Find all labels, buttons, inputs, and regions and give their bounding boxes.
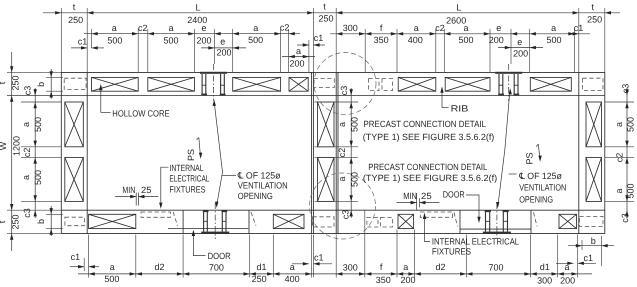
svg-text:L: L [195, 3, 200, 13]
extension line x=91.5 [91, 29, 93, 48]
svg-text:700: 700 [488, 262, 503, 272]
door jamb line right panel, left [459, 210, 461, 233]
svg-text:500: 500 [107, 36, 122, 46]
dim c1 bottom mid [292, 263, 309, 265]
extension line x=88.6 [88, 235, 90, 278]
svg-text:d1: d1 [540, 262, 550, 272]
svg-text:c1: c1 [584, 253, 594, 263]
connection crossbar left [202, 84, 206, 86]
svg-text:MIN: MIN [403, 191, 417, 201]
centerline of opening [496, 203, 498, 239]
svg-text:DOOR: DOOR [443, 189, 465, 199]
jamb foot left [485, 210, 491, 212]
jamb crossbar left [204, 220, 208, 222]
dim row 2 right panel [330, 33, 590, 35]
extension line x=61.3 [60, 8, 62, 72]
door reveal dashed right panel, right [534, 212, 538, 226]
svg-text:200: 200 [489, 35, 504, 45]
svg-text:PRECAST CONNECTION DETAIL: PRECAST CONNECTION DETAIL [364, 119, 487, 129]
extension line x=557.7 [557, 235, 559, 278]
svg-text:300: 300 [343, 262, 358, 272]
hidden core top-right corner [583, 78, 603, 90]
extension line x=529.7 [529, 29, 531, 72]
svg-text:c2: c2 [337, 148, 347, 158]
svg-text:500: 500 [104, 274, 119, 284]
dim c1 bottom-left [70, 266, 84, 268]
extension line y=157.4 central [315, 156, 359, 158]
svg-text:a: a [112, 23, 117, 33]
extension line x=578.8 [578, 8, 580, 72]
svg-text:℄ OF 125ø: ℄ OF 125ø [518, 171, 562, 181]
connection bar [202, 74, 203, 96]
extension line x=397 [396, 230, 398, 278]
detail circle B (bottom joint) [310, 173, 376, 239]
svg-text:c3: c3 [620, 213, 630, 223]
svg-text:PS: PS [186, 149, 196, 161]
svg-text:500: 500 [546, 35, 561, 45]
extension line x=311.6 [311, 235, 313, 278]
W/t dimension line [11, 52, 13, 251]
svg-text:200: 200 [400, 275, 415, 285]
svg-text:e: e [496, 23, 501, 33]
hidden core bottom f-region b [381, 217, 393, 227]
svg-text:a: a [253, 23, 258, 33]
svg-text:a: a [614, 122, 624, 127]
hollow core box T5 [398, 77, 436, 91]
svg-text:200: 200 [196, 36, 211, 46]
svg-text:c3: c3 [23, 86, 33, 96]
row1 arrowheads [55, 11, 61, 14]
svg-text:250: 250 [11, 75, 21, 90]
svg-text:250: 250 [587, 14, 602, 24]
connection foot left [201, 94, 207, 96]
connection foot left [498, 94, 504, 96]
extension line x=336.2 [335, 8, 337, 72]
extension line x=601.5 (b) [601, 236, 603, 266]
extension line x=135.8 [135, 235, 137, 278]
svg-text:400: 400 [408, 35, 423, 45]
svg-text:a: a [414, 23, 419, 33]
extension line x=313.4 [312, 235, 314, 278]
extension line x=147.8 [147, 29, 149, 72]
svg-text:200: 200 [560, 275, 575, 285]
right core chain dim line [626, 88, 628, 218]
extension line y=102.0 central [315, 101, 359, 103]
wire: central joint line 3 [335, 72, 337, 233]
connection foot right [220, 94, 226, 96]
leader internal electrical fixtures right [425, 216, 431, 241]
svg-text:a: a [21, 175, 31, 180]
hollow core box left wall lower [65, 157, 84, 201]
svg-text:VENTILATION: VENTILATION [238, 181, 288, 191]
svg-text:a: a [337, 122, 347, 127]
svg-text:c3: c3 [22, 208, 32, 218]
extension line x=365.2 [364, 29, 366, 72]
svg-text:250: 250 [318, 14, 333, 24]
extension line x=530.6 [530, 235, 532, 278]
extension line x=183.1 [182, 235, 184, 278]
dim row3: second e/200 [201, 47, 246, 49]
extension line x=84.2 (c1) [83, 258, 85, 271]
leader HOLLOW CORE [100, 87, 102, 113]
jamb bar [503, 210, 504, 231]
svg-text:200: 200 [289, 58, 304, 68]
svg-text:500: 500 [33, 117, 43, 132]
extension line y=146.8 [21, 146, 61, 148]
hollow core box T1 [92, 77, 139, 91]
leader DOOR right [466, 195, 479, 220]
hollow core box T7 [530, 77, 571, 91]
extension line y=157.4 [21, 156, 61, 158]
svg-text:b: b [591, 236, 596, 246]
door reveal dashed left panel, right [251, 212, 256, 226]
svg-text:W: W [0, 141, 8, 150]
hollow core box B3 [398, 214, 414, 228]
extension line x=604.8 [604, 8, 606, 72]
svg-text:500: 500 [626, 183, 636, 198]
svg-text:c1: c1 [314, 33, 324, 43]
svg-text:a: a [614, 188, 624, 193]
svg-text:25: 25 [141, 185, 152, 195]
svg-text:700: 700 [209, 262, 224, 272]
dim row3 right: second e/200 [498, 47, 543, 49]
svg-text:MIN: MIN [122, 185, 135, 195]
svg-text:(TYPE 1) SEE FIGURE 3.5.6.2(f): (TYPE 1) SEE FIGURE 3.5.6.2(f) [363, 173, 497, 183]
svg-text:500: 500 [350, 117, 360, 132]
svg-text:a: a [21, 122, 31, 127]
leader DOOR left [193, 234, 205, 256]
extension line y=157.4 right [605, 156, 634, 158]
connection bar [205, 74, 206, 96]
jamb bar [203, 210, 204, 231]
wire: central joint line 4 [337, 72, 339, 233]
leader internal electrical fixtures left [161, 167, 169, 205]
jamb crossbar right [223, 220, 227, 222]
svg-text:c1: c1 [314, 253, 324, 263]
hidden core bottom-central joint [313, 217, 334, 227]
svg-text:300: 300 [537, 275, 552, 285]
hollow core box T2 [148, 77, 195, 91]
extension line x=511 [510, 29, 512, 64]
jamb bar [225, 210, 226, 231]
hollow core box left wall upper [65, 102, 84, 147]
svg-text:500: 500 [626, 117, 636, 132]
PS arrow left [199, 138, 201, 156]
hollow core box T3 [233, 77, 281, 91]
svg-text:INTERNAL: INTERNAL [169, 163, 203, 173]
hollow core box B1 [89, 214, 136, 228]
extension line x=194.4 [193, 29, 195, 72]
svg-text:a: a [403, 262, 408, 272]
extension line x=280.6 [280, 29, 282, 72]
min25 ticks right [416, 193, 418, 210]
wire: left wall inner face [86, 72, 88, 233]
wire: top wall inner face [61, 95, 605, 97]
extension line y=201.4 [21, 200, 61, 202]
door sill left panel [168, 228, 248, 230]
hidden core bottom-left corner [65, 217, 85, 226]
svg-text:(TYPE 1) SEE FIGURE 3.5.6.2(f): (TYPE 1) SEE FIGURE 3.5.6.2(f) [363, 132, 495, 142]
connection bar [517, 74, 518, 96]
extension line y=102.0 right [605, 101, 634, 103]
central core chain dim line [350, 88, 352, 218]
svg-text:250: 250 [11, 214, 21, 229]
svg-text:a: a [551, 23, 556, 33]
dim c1 top right-of-left-panel [297, 44, 309, 46]
svg-text:500: 500 [33, 170, 43, 185]
jamb crossbar left [486, 220, 490, 222]
connection crossbar left [499, 84, 503, 86]
svg-text:350: 350 [376, 275, 391, 285]
svg-text:VENTILATION: VENTILATION [519, 183, 566, 193]
extension line x=397.0 [396, 29, 398, 72]
hollow core box right wall upper [586, 102, 602, 147]
svg-text:e: e [201, 23, 206, 33]
wire: right wall outer face [604, 72, 606, 233]
svg-text:a: a [337, 176, 347, 181]
jamb foot left [203, 210, 209, 212]
dim row4: a/200 near central wall [282, 56, 315, 58]
extension line x=490.0 [489, 29, 491, 72]
jamb bar [207, 210, 208, 231]
svg-text:1200: 1200 [12, 136, 22, 156]
svg-text:25: 25 [421, 191, 432, 201]
door jamb cap at bottom, cl 215.2 [201, 232, 229, 234]
svg-text:c2: c2 [615, 153, 625, 163]
jamb foot right [503, 210, 509, 212]
dim b bottom-left [46, 213, 63, 215]
svg-text:OPENING: OPENING [238, 191, 273, 201]
extension line x=249.7 [249, 235, 251, 278]
door jamb line left panel, left [182, 210, 184, 233]
svg-text:PS: PS [525, 152, 535, 164]
hidden core bottom-right corner [580, 216, 604, 226]
extension line x=308.9 [308, 40, 310, 72]
extension line x=582 (b) [581, 240, 583, 250]
extension line x=288.6 [288, 29, 290, 72]
dim b top-left [46, 76, 63, 78]
svg-text:HOLLOW CORE: HOLLOW CORE [112, 108, 169, 118]
hidden core top f-region a [369, 79, 380, 91]
detail circle A (top joint) [314, 53, 376, 115]
svg-text:c1: c1 [78, 36, 88, 46]
connection detail cap at top, cl 508.7 [495, 72, 522, 74]
connection bar [502, 74, 503, 96]
hollow core box B2 [273, 214, 304, 228]
leader left vent centerline (double arrow) [214, 102, 222, 206]
dim row 1 line [43, 12, 620, 14]
extension line x=577.7 [577, 235, 579, 278]
extension line x=273.3 [272, 235, 274, 278]
svg-text:RIB: RIB [451, 103, 469, 113]
connection bar [224, 74, 225, 96]
connection bar [220, 74, 221, 96]
dim row 2 left panel [84, 33, 300, 35]
wire: bottom wall inner face [61, 209, 605, 211]
connection crossbar right [221, 84, 225, 86]
hollow core box T6 [445, 77, 490, 91]
min25 arrows left [115, 196, 136, 198]
svg-text:PRECAST CONNECTION DETAIL: PRECAST CONNECTION DETAIL [368, 162, 487, 172]
left core chain dim line [34, 88, 36, 218]
extension line x=444.3 [443, 29, 445, 72]
extension line x=87.2 [86, 8, 88, 72]
svg-text:b: b [36, 82, 46, 87]
hidden core top-left corner [64, 78, 86, 89]
svg-text:a: a [296, 46, 301, 56]
svg-text:d1: d1 [256, 262, 266, 272]
hidden core top-central joint [314, 79, 335, 88]
svg-text:400: 400 [285, 274, 300, 284]
extension line y=72.4 [7, 71, 61, 73]
wire: bottom wall outer face [61, 233, 605, 235]
svg-text:OPENING: OPENING [519, 194, 553, 204]
extension line y=102.0 [21, 101, 61, 103]
extension line x=414.6 [414, 230, 416, 278]
svg-text:c2: c2 [435, 23, 445, 33]
jamb foot right [222, 210, 228, 212]
dim c1 top-left [71, 47, 87, 49]
svg-text:FIXTURES: FIXTURES [169, 185, 205, 195]
extension line x=313.4 [312, 8, 314, 72]
door sill right panel [460, 228, 531, 230]
extension line x=232.7 [232, 29, 234, 72]
centerline of connection [508, 64, 510, 101]
PS arrow right [538, 144, 540, 158]
svg-text:ELECTRICAL: ELECTRICAL [169, 174, 209, 184]
svg-text:500: 500 [248, 35, 263, 45]
connection bar [498, 74, 499, 96]
svg-text:c3: c3 [621, 84, 631, 94]
extension line x=336.2 [335, 235, 337, 278]
extension line x=466.3 [465, 235, 467, 278]
svg-text:℄ OF 125ø: ℄ OF 125ø [237, 170, 281, 180]
extension line x=365 (crosses band) [364, 210, 366, 277]
hollow core box B4 [559, 214, 577, 228]
svg-text:c1: c1 [71, 252, 81, 262]
extension line y=146.8 central [315, 146, 359, 148]
svg-text:d2: d2 [154, 262, 164, 272]
svg-text:c2: c2 [280, 23, 290, 33]
leader RIB [441, 89, 443, 108]
extension line y=95.5 [7, 95, 61, 97]
svg-text:c1: c1 [574, 23, 584, 33]
svg-text:e: e [517, 37, 522, 47]
extension line x=214.5 [214, 29, 216, 64]
jamb bar [485, 210, 486, 231]
extension line y=233.6 [7, 233, 61, 235]
bottom chain dim line [78, 273, 592, 275]
wire: left wall outer face [60, 72, 62, 233]
svg-text:e: e [220, 36, 225, 46]
wire: central joint line 1 [311, 72, 313, 233]
hollow core box T4 [289, 77, 308, 91]
hollow core box right wall lower [586, 157, 602, 201]
min25 arrows right [397, 202, 417, 204]
wire: right wall inner face [578, 72, 580, 233]
svg-text:500: 500 [350, 172, 360, 187]
svg-text:250: 250 [68, 15, 83, 25]
svg-text:250: 250 [252, 274, 267, 284]
extension line x=574.5 [574, 29, 576, 72]
svg-text:b: b [36, 219, 46, 224]
leader right vent centerline (double arrow) [498, 91, 510, 206]
door jamb line right panel, right [530, 210, 532, 233]
svg-text:INTERNAL ELECTRICAL: INTERNAL ELECTRICAL [432, 237, 519, 247]
extension line y=201.4 right [605, 200, 634, 202]
jamb bar [507, 210, 508, 231]
hidden core top f-region b [382, 79, 393, 91]
extension line y=146.8 right [605, 146, 634, 148]
svg-text:c2: c2 [22, 148, 32, 158]
dim c1 bottom-right [556, 262, 574, 264]
jamb bar [222, 210, 223, 231]
centerline of opening [214, 203, 216, 239]
svg-text:L: L [456, 3, 461, 13]
min25 ticks left [135, 193, 137, 206]
connection bar [514, 74, 515, 96]
extension line y=201.4 central [315, 200, 359, 202]
wire: central joint line 2 [312, 72, 314, 233]
svg-text:c3: c3 [341, 210, 351, 220]
hollow core box central wall lower [318, 157, 335, 201]
bottom chain arrowheads [89, 272, 95, 275]
svg-text:500: 500 [458, 35, 473, 45]
svg-text:200: 200 [216, 48, 231, 58]
connection foot right [513, 94, 519, 96]
svg-text:c2: c2 [138, 23, 148, 33]
svg-text:350: 350 [374, 35, 389, 45]
wire: top wall outer face [61, 71, 605, 73]
svg-text:200: 200 [513, 49, 528, 59]
hidden conduit right panel [420, 212, 452, 217]
door reveal dashed left panel, left [173, 212, 177, 226]
hidden core bottom f-region a [367, 217, 378, 227]
svg-text:FIXTURES: FIXTURES [432, 247, 471, 257]
door jamb cap at bottom, cl 496.9 [483, 232, 511, 234]
extension line x=435.8 [435, 29, 437, 72]
svg-text:a: a [110, 262, 115, 272]
svg-text:c3: c3 [339, 86, 349, 96]
extension line x=138.2 [137, 29, 139, 72]
door reveal dashed right panel, left [454, 212, 458, 226]
door jamb line left panel, right [248, 210, 250, 233]
jamb crossbar right [504, 220, 508, 222]
svg-text:a: a [168, 23, 173, 33]
extension line y=210.2 [7, 209, 61, 211]
connection detail cap at top, cl 213.4 [200, 72, 227, 74]
svg-text:a: a [463, 23, 468, 33]
svg-text:d2: d2 [435, 262, 445, 272]
dim b bottom-right [568, 245, 614, 247]
hidden conduit left panel [141, 212, 171, 217]
connection crossbar right [514, 84, 518, 86]
svg-text:500: 500 [163, 36, 178, 46]
hollow core box central wall upper [318, 102, 335, 147]
jamb bar [489, 210, 490, 231]
svg-text:300: 300 [343, 23, 358, 33]
centerline of connection [212, 64, 214, 101]
svg-text:DOOR: DOOR [208, 251, 232, 261]
